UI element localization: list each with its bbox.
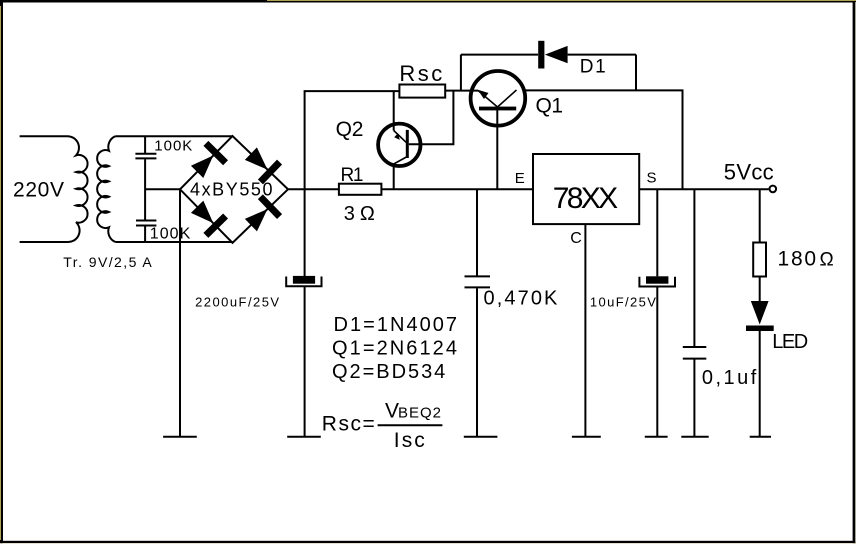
svg-text:100K: 100K xyxy=(150,226,191,243)
terminal 5Vcc circle xyxy=(770,186,777,193)
bridge diode D-BL xyxy=(187,197,228,238)
svg-text:V: V xyxy=(385,400,399,423)
bridge diode D-TR xyxy=(241,144,282,185)
formula fraction bar xyxy=(378,424,443,426)
wire: 180ohm to LED xyxy=(759,277,761,302)
resistor Rsc box xyxy=(399,85,445,98)
ground (0,470K) xyxy=(464,436,498,438)
ground (AC/neg) xyxy=(163,436,197,438)
transformer primary winding xyxy=(67,136,88,242)
svg-text:S: S xyxy=(647,170,657,187)
wire: Q2 emitter drop xyxy=(393,91,395,130)
wire: D1 top right segment xyxy=(568,54,636,56)
wire: transformer primary bottom lead xyxy=(20,241,67,243)
svg-text:Rsc=: Rsc= xyxy=(322,413,375,436)
svg-text:Q2: Q2 xyxy=(336,118,364,141)
capacitor C-lower 100K lead xyxy=(144,226,146,242)
svg-text:Q1=2N6124: Q1=2N6124 xyxy=(332,337,457,359)
wire: main rail bridge to R1 xyxy=(288,188,339,190)
svg-text:180: 180 xyxy=(778,248,817,271)
svg-text:10uF/25V: 10uF/25V xyxy=(590,295,656,310)
wire: 10uF column xyxy=(656,189,658,436)
wire: 78XX C pin to ground xyxy=(584,224,586,437)
ground (C pin) xyxy=(572,436,601,438)
svg-text:5Vcc: 5Vcc xyxy=(724,159,774,184)
svg-text:Isc: Isc xyxy=(394,429,425,452)
wire: D1 top left segment xyxy=(461,54,538,56)
wire: output rail S pin to 5Vcc xyxy=(639,188,768,190)
svg-text:4xBY550: 4xBY550 xyxy=(190,180,273,200)
wire: Q1 base down to rail xyxy=(496,110,498,189)
wire: rail R1 to 78XX E pin xyxy=(381,188,533,190)
wire: LED to ground xyxy=(759,331,761,437)
wire: Q1 collector to output node xyxy=(525,90,683,189)
svg-text:Q2=BD534: Q2=BD534 xyxy=(332,361,445,383)
wire: transformer primary top lead xyxy=(20,135,67,137)
svg-text:LED: LED xyxy=(772,331,808,353)
transformer secondary winding xyxy=(97,136,115,242)
wire: D1 right leg xyxy=(635,55,637,91)
wire: 2200uF column xyxy=(304,189,306,436)
wire: Q2 base to Rsc output node xyxy=(409,91,454,144)
bridge diode D-TL xyxy=(187,141,228,182)
wire: between 100K caps xyxy=(144,159,146,220)
bridge rectifier diamond xyxy=(180,136,288,243)
svg-text:220V: 220V xyxy=(13,179,64,202)
wire: secondary bottom lead to bridge bottom vertex xyxy=(116,241,233,243)
ground (0,1uf) xyxy=(681,436,708,438)
capacitor C-upper 100K plates xyxy=(135,154,156,159)
capacitor 0,1uf plates xyxy=(683,347,707,359)
ground (2200uF) xyxy=(287,436,321,438)
svg-text:Rsc: Rsc xyxy=(399,61,442,86)
capacitor C-lower 100K plates xyxy=(136,221,156,226)
wire: 0,470K column xyxy=(476,189,478,436)
capacitor C-upper 100K lead xyxy=(144,136,146,153)
svg-text:Ω: Ω xyxy=(820,250,834,271)
wire: LED column top xyxy=(759,189,761,242)
wire: Rsc output to Q1 emitter xyxy=(445,90,478,92)
svg-text:Q1: Q1 xyxy=(536,95,564,118)
transistor Q2 symbol xyxy=(378,124,420,166)
svg-text:BEQ2: BEQ2 xyxy=(398,405,441,422)
diode D1 xyxy=(538,41,567,69)
svg-text:Tr. 9V/2,5 A: Tr. 9V/2,5 A xyxy=(63,254,152,270)
capacitor 2200uF electrolytic xyxy=(286,276,321,286)
capacitor 0,470K plates xyxy=(465,276,491,287)
svg-text:D1: D1 xyxy=(580,57,606,78)
wire: secondary top lead to bridge top vertex xyxy=(116,135,233,137)
LED diode xyxy=(746,301,774,331)
bridge diode D-BR xyxy=(241,194,282,235)
svg-text:3 Ω: 3 Ω xyxy=(344,203,375,225)
resistor R1 box xyxy=(339,184,382,195)
wire: Q2 collector down to rail xyxy=(393,164,395,190)
ground (10uF) xyxy=(645,436,668,438)
wire: node up from rail to Rsc input xyxy=(305,91,400,189)
wire: D1 left leg xyxy=(460,55,462,92)
wire: 0,1uf column xyxy=(693,189,695,436)
svg-text:R1: R1 xyxy=(341,165,364,186)
wire: caps midpoint to bridge left vertex xyxy=(145,188,180,190)
svg-text:C: C xyxy=(570,230,582,247)
svg-text:E: E xyxy=(515,170,525,187)
svg-text:78XX: 78XX xyxy=(553,182,619,215)
capacitor 10uF electrolytic xyxy=(639,276,675,286)
transistor Q1 symbol xyxy=(471,71,526,126)
ground (LED) xyxy=(750,436,771,438)
resistor 180ohm box xyxy=(753,243,766,277)
78XX regulator box xyxy=(533,154,639,224)
svg-text:D1=1N4007: D1=1N4007 xyxy=(334,314,458,336)
wire: bridge left vertex down to ground xyxy=(179,189,181,436)
svg-text:100K: 100K xyxy=(154,138,192,155)
